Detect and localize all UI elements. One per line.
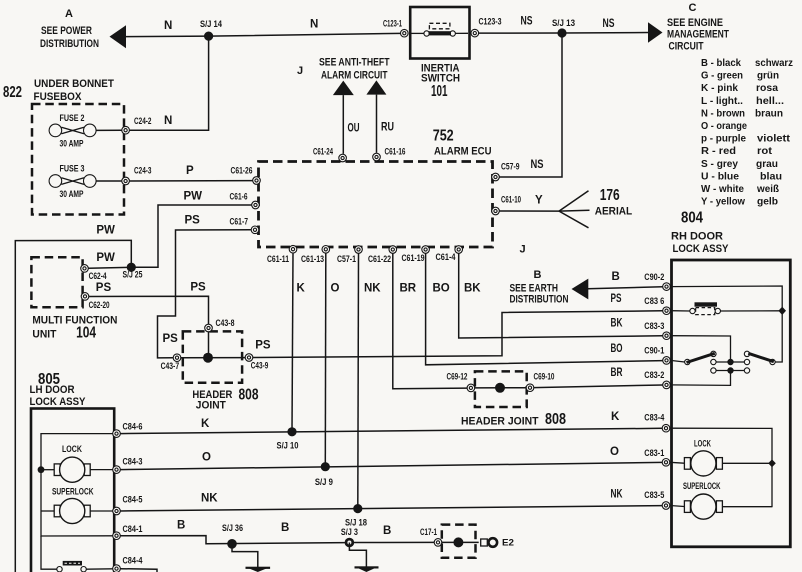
svg-text:weiß: weiß <box>756 183 779 195</box>
svg-text:blau: blau <box>760 170 782 182</box>
svg-text:C62-4: C62-4 <box>89 271 107 281</box>
svg-text:O: O <box>202 452 211 464</box>
wire PS: C62-20 to C43-8 <box>89 281 209 324</box>
svg-text:MULTI FUNCTION: MULTI FUNCTION <box>32 314 117 326</box>
connector C24-2 <box>122 115 173 134</box>
svg-text:L - light..: L - light.. <box>701 95 743 107</box>
svg-text:BO: BO <box>611 343 623 355</box>
svg-text:G - green: G - green <box>701 70 743 82</box>
svg-text:B: B <box>534 269 542 281</box>
fusebox 822 dashed box <box>3 78 124 215</box>
earth box internal wire and splice <box>442 537 479 547</box>
svg-text:C84-4: C84-4 <box>123 555 143 565</box>
connector C62-4 <box>81 265 107 281</box>
RH wire BK internal <box>670 336 730 362</box>
svg-text:violett: violett <box>757 133 791 145</box>
svg-text:PS: PS <box>255 339 271 351</box>
svg-text:C83 6: C83 6 <box>644 296 664 306</box>
fuse F2 30A <box>49 113 122 149</box>
svg-text:P: P <box>186 165 194 177</box>
svg-text:C90-2: C90-2 <box>644 272 664 282</box>
ground below S/J 3 <box>349 543 378 572</box>
connector C61-13 <box>301 246 330 264</box>
connector C61-10 <box>492 194 521 215</box>
splice S/J 14 <box>200 19 222 41</box>
connector C83-1 <box>644 448 670 466</box>
svg-text:LOCK: LOCK <box>694 438 711 448</box>
svg-text:C61-24: C61-24 <box>313 147 333 157</box>
svg-text:PS: PS <box>611 293 622 305</box>
svg-text:104: 104 <box>76 325 96 342</box>
svg-text:752: 752 <box>433 128 454 145</box>
svg-text:SUPERLOCK: SUPERLOCK <box>52 487 94 497</box>
svg-text:UNIT: UNIT <box>32 328 56 340</box>
svg-text:SUPERLOCK: SUPERLOCK <box>683 481 721 491</box>
connector C83-2 <box>644 370 670 389</box>
connector C123-1 <box>383 19 408 38</box>
svg-text:C69-12: C69-12 <box>447 372 468 382</box>
svg-text:C84-6: C84-6 <box>123 422 143 432</box>
arrow C (see engine management circuit) <box>648 2 729 53</box>
svg-text:C61-22: C61-22 <box>368 254 391 264</box>
svg-text:804: 804 <box>681 210 703 227</box>
svg-text:C123-1: C123-1 <box>383 19 402 29</box>
svg-text:LOCK: LOCK <box>62 444 82 454</box>
connector C90-2 <box>644 272 670 290</box>
earth point E2 <box>481 537 514 547</box>
svg-text:B - black: B - black <box>701 57 741 69</box>
svg-text:C43-9: C43-9 <box>251 361 268 371</box>
connector C69-12 <box>447 372 475 392</box>
svg-text:schwarz: schwarz <box>755 57 793 69</box>
svg-text:N: N <box>310 19 318 31</box>
svg-text:C90-1: C90-1 <box>644 346 664 356</box>
connector C83-6 <box>644 296 670 315</box>
svg-text:DISTRIBUTION: DISTRIBUTION <box>510 293 569 305</box>
RH lock/superlock switch pack <box>685 351 776 374</box>
svg-text:PS: PS <box>163 333 179 345</box>
LH internal bus wire <box>41 434 113 536</box>
connector C43-7 <box>161 354 181 371</box>
svg-text:30 AMP: 30 AMP <box>60 139 84 149</box>
svg-text:grau: grau <box>756 158 778 170</box>
RH junction diamond K/lock <box>768 459 776 467</box>
LH lock motor <box>41 444 113 482</box>
connector C90-1 <box>644 346 670 365</box>
svg-text:PW: PW <box>96 225 115 237</box>
connector C123-3 <box>471 17 502 37</box>
wire PW: left branch down page <box>15 225 131 572</box>
connector C61-26 <box>231 166 261 185</box>
svg-text:rosa: rosa <box>756 82 778 94</box>
connector C83-4 <box>644 413 670 432</box>
wire NK: C57-1 down to S/J 18 <box>358 253 382 508</box>
RH switch on C83-6 row <box>670 302 782 314</box>
svg-text:C84-5: C84-5 <box>123 494 143 504</box>
svg-text:S/J 10: S/J 10 <box>277 441 299 451</box>
svg-text:UNDER BONNET: UNDER BONNET <box>34 78 114 90</box>
inertia switch 101 box <box>410 7 469 100</box>
svg-text:S/J 13: S/J 13 <box>552 18 575 28</box>
LH key switch (bottom, cut off) <box>41 536 113 572</box>
svg-text:MANAGEMENT: MANAGEMENT <box>667 29 729 41</box>
svg-text:LOCK ASSY: LOCK ASSY <box>673 243 730 255</box>
svg-text:NK: NK <box>364 283 381 295</box>
svg-text:C57-9: C57-9 <box>501 161 520 171</box>
inertia switch contacts <box>412 23 469 36</box>
wire: S/J 14 down to fusebox N wire <box>130 36 209 130</box>
wire PS: C61-7 down to C43-7 <box>158 215 252 358</box>
svg-text:JOINT: JOINT <box>196 399 226 411</box>
svg-text:C61-26: C61-26 <box>231 166 253 176</box>
svg-text:gelb: gelb <box>757 196 778 208</box>
header joint internal wire and splice <box>475 383 526 393</box>
svg-text:K: K <box>611 411 620 423</box>
svg-text:N: N <box>164 20 172 32</box>
svg-text:E2: E2 <box>502 537 514 547</box>
svg-text:FUSE 3: FUSE 3 <box>60 164 85 174</box>
svg-text:C84-3: C84-3 <box>123 456 143 466</box>
connector C43-9 <box>245 354 268 371</box>
RH door lock assy box <box>671 210 790 547</box>
wire Y: C61-10 to aerial <box>499 195 559 212</box>
svg-text:p - purple: p - purple <box>701 133 746 145</box>
svg-text:C61-19: C61-19 <box>402 253 425 263</box>
ground below S/J 36 <box>232 544 270 572</box>
RH wire B internal: C90-2 right then down to switch <box>670 286 782 362</box>
svg-text:C83-3: C83-3 <box>644 321 664 331</box>
svg-text:K: K <box>201 418 210 430</box>
LH superlock motor <box>41 487 113 524</box>
svg-text:J: J <box>520 244 526 256</box>
header joint internal wire and splice <box>181 332 245 363</box>
wire P: C24-3 to C61-26 <box>130 180 253 182</box>
svg-text:808: 808 <box>545 411 566 428</box>
wire NS: C57-9 up to S/J 13 <box>499 38 562 178</box>
svg-text:NS: NS <box>531 159 544 171</box>
arrow A (see power distribution) <box>40 8 126 50</box>
svg-text:B: B <box>281 522 289 534</box>
svg-text:C62-20: C62-20 <box>89 300 110 310</box>
svg-text:S/J 18: S/J 18 <box>345 518 367 528</box>
svg-text:C17-1: C17-1 <box>420 527 437 537</box>
svg-text:C61-6: C61-6 <box>230 191 248 201</box>
connector C57-1 <box>337 246 362 264</box>
svg-text:NK: NK <box>611 489 623 501</box>
svg-text:SEE ANTI-THEFT: SEE ANTI-THEFT <box>319 57 390 69</box>
connector C61-22 <box>368 246 397 264</box>
wire BR: C69-10 to C83-2 <box>534 367 663 387</box>
header joint 808 (right) dashed box <box>461 371 566 428</box>
svg-text:W - white: W - white <box>701 183 744 195</box>
svg-text:K: K <box>297 283 306 295</box>
wire BK: C61-4 down then right to C83-3 <box>459 253 663 338</box>
svg-text:C61-11: C61-11 <box>267 254 289 264</box>
fuse F3 30A <box>49 164 122 200</box>
svg-text:B: B <box>177 520 185 532</box>
svg-text:S/J 3: S/J 3 <box>341 527 358 537</box>
svg-text:A: A <box>65 8 73 20</box>
splice S/J 36 <box>222 523 243 549</box>
svg-text:NS: NS <box>603 18 615 30</box>
header joint 808 (left) dashed box <box>183 331 259 411</box>
svg-text:grün: grün <box>757 70 779 82</box>
svg-text:BK: BK <box>464 283 481 295</box>
svg-text:S - grey: S - grey <box>701 158 738 170</box>
connector C57-9 <box>492 161 520 181</box>
svg-text:PW: PW <box>184 191 203 203</box>
RH junction diamond B/PS <box>778 307 786 315</box>
svg-text:PS: PS <box>190 281 206 293</box>
svg-text:Y - yellow: Y - yellow <box>701 196 746 208</box>
svg-text:C43-7: C43-7 <box>161 361 180 371</box>
svg-text:C24-3: C24-3 <box>134 166 152 176</box>
connector C83-5 <box>644 490 670 509</box>
wire B: earth arrow to C90-2 <box>588 271 663 289</box>
connector C84-6 <box>113 422 143 438</box>
connector C61-7 <box>230 217 259 234</box>
svg-text:SEE POWER: SEE POWER <box>41 25 92 37</box>
wire O: C61-13 down to S/J 9 <box>325 253 339 467</box>
LH door lock assy box <box>30 371 115 572</box>
connector C61-19 <box>402 246 430 263</box>
svg-text:K - pink: K - pink <box>701 82 738 94</box>
connector C43-8 <box>205 318 235 332</box>
connector C17-1 <box>420 527 442 546</box>
svg-text:FUSEBOX: FUSEBOX <box>34 91 83 103</box>
svg-text:NK: NK <box>201 493 218 505</box>
svg-text:808: 808 <box>239 387 259 404</box>
connector C61-16 <box>373 147 406 161</box>
svg-text:BO: BO <box>433 283 450 295</box>
connector C69-10 <box>526 372 554 392</box>
wire N: arrow A to S/J 14 to C123-1 <box>125 19 401 37</box>
svg-text:Y: Y <box>535 195 543 207</box>
svg-text:PS: PS <box>96 282 112 294</box>
svg-text:RU: RU <box>381 122 394 134</box>
svg-text:hell...: hell... <box>756 95 784 107</box>
svg-text:S/J 25: S/J 25 <box>123 270 143 280</box>
RH wire K internal: C83-4 right then down <box>670 428 772 506</box>
svg-text:O - orange: O - orange <box>701 120 747 132</box>
svg-text:C84-1: C84-1 <box>123 524 143 534</box>
wire NK row: C84-5 to C83-5 <box>120 489 662 511</box>
alarm ECU 752 dashed box <box>259 128 493 248</box>
svg-text:PS: PS <box>185 215 201 227</box>
RH superlock motor <box>670 481 772 519</box>
svg-text:FUSE 2: FUSE 2 <box>60 113 85 123</box>
svg-text:BR: BR <box>400 283 417 295</box>
svg-text:30 AMP: 30 AMP <box>60 189 84 199</box>
svg-text:J: J <box>297 65 303 77</box>
svg-text:AERIAL: AERIAL <box>595 206 633 218</box>
splice S/J 9 <box>315 462 333 487</box>
RH lock motor <box>670 438 772 476</box>
legend: wire colour code <box>701 57 793 208</box>
svg-text:R - red: R - red <box>701 145 736 157</box>
svg-text:BK: BK <box>611 318 623 330</box>
svg-text:N: N <box>164 115 172 127</box>
connector C61-4 <box>436 246 463 262</box>
svg-text:ALARM CIRCUIT: ALARM CIRCUIT <box>321 69 388 81</box>
connector C84-4 <box>113 555 143 572</box>
multi function unit 104 dashed box <box>31 257 117 342</box>
aerial 176 <box>559 187 632 228</box>
connector C84-1 <box>113 524 143 540</box>
svg-text:O: O <box>610 446 619 458</box>
connector C24-3 <box>122 165 194 185</box>
LH bus junction <box>38 466 45 473</box>
wire PS: C43-9 to C83-6 <box>253 293 663 357</box>
svg-text:C83-5: C83-5 <box>644 490 664 500</box>
svg-text:NS: NS <box>521 16 533 28</box>
anti-theft alarm header J <box>297 57 390 82</box>
svg-text:HEADER JOINT: HEADER JOINT <box>461 416 539 428</box>
connector C62-20 <box>81 293 109 310</box>
svg-text:S/J 14: S/J 14 <box>200 19 222 29</box>
svg-text:C69-10: C69-10 <box>534 372 555 382</box>
svg-text:LH DOOR: LH DOOR <box>30 384 75 396</box>
svg-text:CIRCUIT: CIRCUIT <box>669 41 704 53</box>
splice S/J 13 <box>552 18 575 38</box>
svg-text:C83-1: C83-1 <box>644 448 664 458</box>
svg-text:rot: rot <box>757 145 773 157</box>
svg-text:RH DOOR: RH DOOR <box>671 231 723 243</box>
svg-text:BR: BR <box>611 367 623 379</box>
svg-text:C123-3: C123-3 <box>479 17 502 27</box>
svg-text:braun: braun <box>755 107 783 119</box>
connector C84-5 <box>113 494 143 515</box>
svg-text:O: O <box>331 283 340 295</box>
svg-text:C43-8: C43-8 <box>216 318 235 328</box>
splice S/J 10 <box>277 427 299 450</box>
svg-text:822: 822 <box>3 84 22 101</box>
svg-text:ALARM ECU: ALARM ECU <box>434 146 492 158</box>
svg-text:176: 176 <box>600 187 620 204</box>
svg-text:B: B <box>383 525 391 537</box>
svg-text:101: 101 <box>431 83 448 100</box>
svg-text:C61-16: C61-16 <box>385 147 406 157</box>
svg-text:B: B <box>612 271 620 283</box>
connector C83-3 <box>644 321 670 340</box>
svg-text:PW: PW <box>96 252 115 264</box>
earth header dashed box <box>442 525 476 558</box>
connector C84-3 <box>113 456 143 473</box>
svg-text:S/J 9: S/J 9 <box>315 477 333 487</box>
svg-text:C57-1: C57-1 <box>337 254 356 264</box>
svg-text:OU: OU <box>348 123 360 135</box>
RH wire BR internal <box>670 371 730 386</box>
splice S/J 18 <box>345 504 367 528</box>
wire BO: C61-19 down then right to C90-1 <box>426 253 663 364</box>
wire K: C61-11 down to S/J 10 <box>292 253 306 432</box>
svg-text:C61-4: C61-4 <box>436 252 456 262</box>
svg-text:C: C <box>689 2 697 14</box>
svg-text:C61-7: C61-7 <box>230 217 249 227</box>
svg-text:LOCK ASSY: LOCK ASSY <box>30 396 87 408</box>
svg-text:U - blue: U - blue <box>701 170 739 182</box>
wire K row: C84-6 to C83-4 <box>120 411 662 433</box>
wire NS: C123-3 to S/J 13 to arrow C <box>479 16 649 34</box>
wire PW: C62-4 to S/J 25 to C61-6 <box>88 191 251 269</box>
arrow B (see earth distribution) <box>510 269 589 305</box>
RH wire BO internal <box>670 360 684 362</box>
connector C61-24 <box>313 147 346 162</box>
arrow to anti-theft circuit (RU) <box>366 80 394 152</box>
svg-text:C83-4: C83-4 <box>644 413 664 423</box>
svg-text:SEE ENGINE: SEE ENGINE <box>667 17 723 29</box>
splice S/J 25 <box>123 263 143 280</box>
wire BR: C61-22 down then right to header joint 808 <box>393 253 467 388</box>
connector C61-11 <box>267 245 297 263</box>
svg-text:C24-2: C24-2 <box>134 116 152 126</box>
connector C61-6 <box>230 191 260 209</box>
svg-text:N - brown: N - brown <box>701 107 745 119</box>
svg-text:DISTRIBUTION: DISTRIBUTION <box>40 38 99 50</box>
arrow to anti-theft circuit (OU) <box>333 81 360 154</box>
svg-text:C83-2: C83-2 <box>644 370 664 380</box>
splice S/J 3 <box>341 527 358 547</box>
svg-text:S/J 36: S/J 36 <box>222 523 243 533</box>
svg-text:C61-13: C61-13 <box>301 254 324 264</box>
wire O row: C84-3 to C83-1 <box>120 446 662 470</box>
wire B row: C84-1 to S/J 36 to S/J 3 to C17-1 <box>120 520 434 544</box>
svg-text:C61-10: C61-10 <box>501 194 521 204</box>
wire from C84-4 off page <box>120 569 157 572</box>
